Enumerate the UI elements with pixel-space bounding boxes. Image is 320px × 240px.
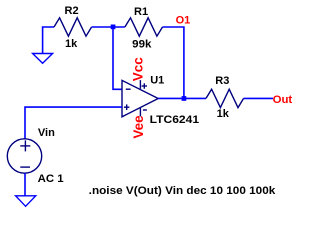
ground (top-left): [33, 54, 53, 64]
svg-text:AC 1: AC 1: [38, 173, 64, 185]
svg-text:Vcc: Vcc: [131, 57, 146, 82]
junction at inverting node: [111, 25, 116, 30]
resistor R3: [206, 89, 244, 107]
op-amp inverting mark: [126, 88, 131, 90]
wire Vin bottom to ground: [24, 173, 26, 195]
wire R1 right down to output node: [163, 27, 184, 98]
ground (under Vin): [16, 196, 36, 207]
wire from ground to R2 left: [43, 27, 54, 54]
svg-text:R1: R1: [134, 6, 148, 18]
op-amp non-inverting mark: [124, 104, 129, 110]
op-amp plus power mark: [142, 83, 147, 88]
svg-text:.noise V(Out) Vin dec 10 100 1: .noise V(Out) Vin dec 10 100 100k: [89, 185, 277, 197]
svg-text:U1: U1: [150, 74, 164, 86]
svg-text:Vee: Vee: [131, 115, 146, 139]
source minus mark: [20, 166, 30, 168]
wire junction down to inverting input: [113, 29, 122, 89]
svg-text:Vin: Vin: [38, 127, 55, 139]
wire Vin to non-inverting input: [25, 107, 122, 139]
wire R3 right to Out: [244, 97, 273, 99]
op-amp Vcc pin stub: [139, 80, 141, 89]
resistor R2: [54, 18, 92, 36]
wire op-amp output to R3: [158, 97, 206, 99]
op-amp minus power mark: [143, 109, 147, 111]
wire R2 right to R1 left: [92, 26, 125, 28]
voltage source Vin circle: [7, 139, 41, 173]
svg-text:99k: 99k: [132, 38, 152, 50]
resistor R1: [125, 18, 163, 36]
junction at output node: [182, 96, 187, 101]
svg-text:O1: O1: [176, 14, 191, 26]
svg-text:1k: 1k: [217, 108, 230, 120]
op-amp Vee pin stub: [139, 108, 141, 117]
svg-text:R2: R2: [65, 5, 79, 17]
svg-text:1k: 1k: [65, 38, 78, 50]
svg-text:R3: R3: [215, 75, 229, 87]
op-amp U1 triangle: [122, 80, 158, 116]
svg-text:Out: Out: [273, 94, 293, 106]
svg-text:LTC6241: LTC6241: [150, 114, 200, 126]
source plus mark: [20, 140, 30, 151]
